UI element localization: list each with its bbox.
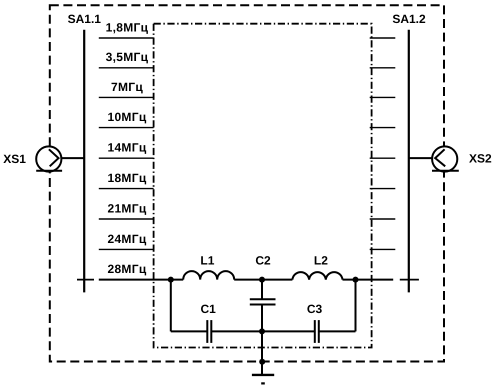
wire XS1 to SA1.1 — [59, 157, 85, 159]
node right junction — [353, 277, 359, 283]
wire L2 to right tick — [343, 279, 394, 281]
inductor L2 — [292, 272, 342, 279]
capacitor C1 — [207, 320, 211, 343]
inductor L1 — [183, 271, 234, 280]
svg-text:10МГц: 10МГц — [107, 110, 146, 124]
right contact tick row1 — [370, 37, 396, 39]
svg-text:28МГц: 28МГц — [107, 262, 146, 276]
node at enclosure crossing — [259, 359, 265, 365]
connector XS1 — [36, 146, 62, 171]
contact 1,8MHz wire — [99, 37, 154, 39]
node left junction — [168, 277, 174, 283]
contact 3,5MHz wire — [99, 67, 154, 69]
wire bottom right segment — [320, 330, 356, 332]
svg-text:SA1.1: SA1.1 — [68, 12, 102, 26]
wire left branch down — [170, 280, 172, 332]
svg-text:18МГц: 18МГц — [107, 171, 146, 185]
capacitor C2 — [250, 280, 276, 332]
svg-text:XS2: XS2 — [469, 152, 492, 166]
connector XS2 — [432, 146, 459, 171]
svg-text:21МГц: 21МГц — [107, 201, 146, 215]
switch SA1.2 common bar — [408, 30, 410, 293]
wire right branch down — [355, 280, 357, 332]
wire bottom middle segment — [212, 330, 314, 332]
svg-text:14МГц: 14МГц — [107, 141, 146, 155]
right contact tick row3 — [370, 96, 396, 98]
switch SA1.1 common bar — [83, 30, 85, 293]
wire SA1.2 to XS2 — [409, 157, 435, 159]
svg-text:C3: C3 — [307, 302, 323, 316]
svg-text:C2: C2 — [255, 254, 271, 268]
svg-text:7МГц: 7МГц — [111, 80, 143, 94]
svg-text:1,8МГц: 1,8МГц — [106, 20, 149, 34]
svg-text:XS1: XS1 — [3, 152, 26, 166]
right contact tick row7 — [370, 218, 396, 220]
node bottom center junction — [259, 328, 265, 334]
svg-text:24МГц: 24МГц — [107, 232, 146, 246]
contact 10MHz wire — [99, 127, 154, 129]
shield dash-dot boundary — [154, 24, 372, 348]
wire 28MHz row left segment — [99, 279, 183, 281]
svg-text:SA1.2: SA1.2 — [392, 12, 426, 26]
contact 21MHz wire — [99, 218, 154, 220]
contact 24MHz wire — [99, 248, 154, 250]
contact 14MHz wire — [99, 157, 154, 159]
svg-text:3,5МГц: 3,5МГц — [106, 50, 149, 64]
svg-text:C1: C1 — [201, 302, 217, 316]
enclosure dashed boundary — [50, 5, 444, 361]
svg-text:L2: L2 — [314, 254, 328, 268]
wire L1 to C2 node — [234, 279, 292, 281]
switch SA1.1 end tick — [77, 279, 94, 281]
ground — [252, 375, 274, 384]
right contact tick row8 — [370, 248, 396, 250]
svg-text:L1: L1 — [200, 254, 214, 268]
right contact tick row2 — [370, 67, 396, 69]
right contact tick row5 — [370, 157, 396, 159]
right contact tick row6 — [370, 188, 396, 190]
node center top junction — [259, 277, 265, 283]
wire to ground — [261, 331, 263, 375]
wire bottom left segment — [171, 330, 207, 332]
contact 18MHz wire — [99, 188, 154, 190]
switch SA1.2 end tick — [400, 279, 419, 281]
capacitor C3 — [315, 320, 319, 343]
contact 7MHz wire — [99, 96, 154, 98]
right contact tick row4 — [370, 127, 396, 129]
